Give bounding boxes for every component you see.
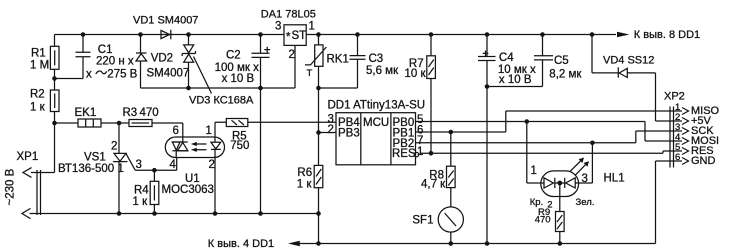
node junction C4 drop bottom: [485, 241, 490, 246]
diode VD4 SS12: [590, 32, 682, 121]
wire PB3 stub: [319, 132, 337, 134]
svg-text:VD1 SM4007: VD1 SM4007: [133, 15, 198, 27]
node junction HL1 green / PB2: [590, 141, 595, 146]
svg-text:1 М: 1 М: [30, 60, 49, 72]
capacitor C1: [55, 32, 138, 80]
svg-text:R1: R1: [31, 48, 46, 60]
svg-text:C1: C1: [98, 44, 113, 56]
node junction HL1 red / PB0: [525, 119, 530, 124]
regulator DA1 78L05: [261, 9, 316, 62]
wire PB1 to MISO: [416, 111, 683, 132]
resistor R9 470: [535, 207, 564, 243]
wire top +5V rail: [55, 34, 617, 36]
svg-text:VD4 SS12: VD4 SS12: [603, 55, 654, 67]
zener VD3 КС168А: [182, 32, 254, 106]
wire U1 pin1 to R5: [215, 122, 226, 137]
node junction VD3/ground: [186, 86, 191, 91]
resistor R5 750: [226, 119, 336, 152]
svg-text:R3: R3: [123, 107, 138, 119]
svg-text:МОС3063: МОС3063: [162, 184, 214, 196]
svg-text:100 мк х: 100 мк х: [215, 62, 260, 74]
svg-text:RK1: RK1: [327, 53, 349, 65]
node junction EK1/R3/VS1: [117, 121, 122, 126]
svg-text:1: 1: [309, 21, 315, 33]
LED HL1 bicolor: [530, 158, 625, 212]
svg-text:DD1 ATtiny13A-SU: DD1 ATtiny13A-SU: [328, 100, 426, 112]
wire HL1 pin3: [579, 143, 593, 183]
svg-text:EK1: EK1: [75, 107, 97, 119]
svg-text:C4: C4: [499, 52, 514, 64]
thermistor RK1: [305, 32, 349, 79]
svg-text:C2: C2: [226, 50, 241, 62]
svg-text:750: 750: [230, 140, 249, 152]
capacitor C2: [215, 32, 271, 88]
svg-text:ВТ136-500: ВТ136-500: [58, 163, 114, 175]
node junction ground drop bottom: [258, 211, 263, 216]
svg-text:3: 3: [136, 159, 142, 171]
node junction R9 bottom: [558, 241, 563, 246]
svg-text:275 В: 275 В: [107, 69, 137, 81]
wire RES to XP2: [420, 151, 682, 153]
node junction R8/PB1: [449, 130, 454, 135]
svg-text:C5: C5: [554, 55, 569, 67]
diode VD1 SM4007: [133, 15, 198, 40]
wire divider to C3: [319, 87, 358, 89]
wire ground bus: [141, 45, 296, 88]
node junction C4 link: [485, 84, 490, 89]
svg-text:4: 4: [170, 159, 177, 171]
svg-text:XP2: XP2: [664, 90, 685, 102]
svg-text:1: 1: [206, 125, 212, 137]
svg-text:RES: RES: [392, 148, 416, 160]
resistor R8 4,7к: [421, 132, 455, 207]
triac VS1 BT136-500: [58, 123, 177, 214]
node junction VS1 bottom: [117, 211, 122, 216]
resistor R2: [30, 89, 59, 124]
svg-text:VD3 КС168А: VD3 КС168А: [189, 94, 254, 106]
wire divider column: [318, 66, 320, 165]
node: К выв. 4 DD1 arrow: [208, 238, 300, 250]
node junction R2/EK1/XP1: [52, 121, 57, 126]
node junction R7/RES: [429, 151, 434, 156]
svg-text:х 10 В: х 10 В: [222, 73, 255, 85]
svg-text:SF1: SF1: [412, 214, 433, 226]
svg-text:2: 2: [289, 49, 295, 61]
svg-text:1: 1: [118, 163, 124, 175]
node junction PB3 divider: [316, 130, 321, 135]
resistor R7: [405, 32, 436, 153]
heater EK1: [55, 107, 130, 127]
button SF1: [412, 207, 463, 244]
connector XP2: [664, 90, 720, 167]
svg-text:К выв. 4 DD1: К выв. 4 DD1: [208, 238, 274, 250]
wire PB2 to SCK: [416, 131, 683, 143]
svg-text:R4: R4: [134, 184, 149, 196]
node junction U1 pin2 bottom: [213, 211, 218, 216]
svg-text:5,6 мк: 5,6 мк: [366, 65, 399, 77]
resistor R6 1к: [297, 165, 323, 243]
svg-text:C3: C3: [369, 53, 384, 65]
node junction C2/ground: [258, 86, 263, 91]
svg-text:3: 3: [275, 21, 281, 33]
node junction SF1 bottom: [449, 241, 454, 246]
wire К выв. 4 DD1 line: [300, 161, 683, 244]
capacitor C4: [478, 32, 536, 243]
svg-text:470: 470: [140, 107, 159, 119]
svg-text:XP1: XP1: [17, 151, 39, 163]
svg-text:HL1: HL1: [604, 173, 625, 185]
svg-text:1: 1: [417, 146, 423, 158]
svg-text:SM4007: SM4007: [147, 67, 190, 79]
svg-text:Т: Т: [307, 68, 313, 79]
svg-text:VD2: VD2: [151, 53, 173, 65]
wire U1 pin2 to bottom rail: [214, 158, 216, 214]
svg-text:2: 2: [328, 124, 334, 136]
svg-text:220 н х: 220 н х: [96, 56, 134, 68]
svg-text:*: *: [286, 32, 291, 44]
svg-text:1 к: 1 к: [297, 178, 313, 190]
svg-text:DA1 78L05: DA1 78L05: [261, 9, 316, 21]
optocoupler U1 MOC3063: [162, 125, 225, 196]
svg-text:8,2 мк: 8,2 мк: [549, 69, 582, 81]
svg-text:х 10 В: х 10 В: [499, 74, 532, 86]
svg-text:2: 2: [209, 159, 215, 171]
diode VD2 SM4007: [136, 32, 189, 88]
svg-text:Зел.: Зел.: [576, 197, 595, 208]
svg-text:1 к: 1 к: [30, 102, 46, 114]
wire HL1 pin1: [527, 122, 541, 184]
svg-text:R6: R6: [297, 167, 312, 179]
svg-text:х: х: [86, 69, 92, 81]
svg-text:470: 470: [535, 214, 551, 225]
resistor R1: [30, 35, 59, 91]
wire U1 pin4 to gate node: [176, 158, 178, 171]
resistor R3 470: [123, 107, 183, 137]
svg-text:4,7 к: 4,7 к: [421, 179, 446, 191]
wire PB0 to MOSI: [416, 122, 683, 142]
svg-text:GND: GND: [691, 155, 716, 167]
svg-text:1: 1: [531, 165, 537, 177]
node junction RK1/C3/PB3 divider: [316, 86, 321, 91]
MCU DD1 ATtiny13A-SU: [328, 100, 426, 165]
capacitor C5: [534, 32, 582, 80]
svg-text:VS1: VS1: [84, 151, 106, 163]
svg-text:R2: R2: [30, 89, 45, 101]
svg-text:10 к: 10 к: [405, 68, 427, 80]
node junction bottom line: [316, 241, 321, 246]
svg-text:К выв. 8 DD1: К выв. 8 DD1: [634, 29, 700, 41]
svg-text:2: 2: [111, 141, 117, 153]
wire bottom rail (VS1 anode / ground): [30, 213, 319, 215]
connector XP1: [5, 123, 55, 219]
node junction R4 bottom: [152, 211, 157, 216]
svg-text:MCU: MCU: [363, 117, 389, 129]
svg-text:~230 В: ~230 В: [5, 168, 17, 205]
svg-text:ST: ST: [292, 30, 307, 42]
svg-text:1 к: 1 к: [133, 196, 149, 208]
capacitor C3: [350, 32, 400, 88]
resistor R4 1к: [133, 168, 159, 214]
node: К выв. 8 DD1 arrow: [617, 29, 700, 41]
svg-text:6: 6: [173, 125, 179, 137]
node junction R6 bottom rail: [316, 211, 321, 216]
wire ground drop to bottom rail: [260, 88, 262, 214]
svg-text:PB3: PB3: [338, 127, 360, 139]
svg-text:3: 3: [582, 173, 588, 185]
svg-text:6: 6: [675, 152, 680, 163]
node junction R1/R2/C1: [52, 76, 57, 81]
wire C4-C5 ground link: [487, 60, 543, 87]
